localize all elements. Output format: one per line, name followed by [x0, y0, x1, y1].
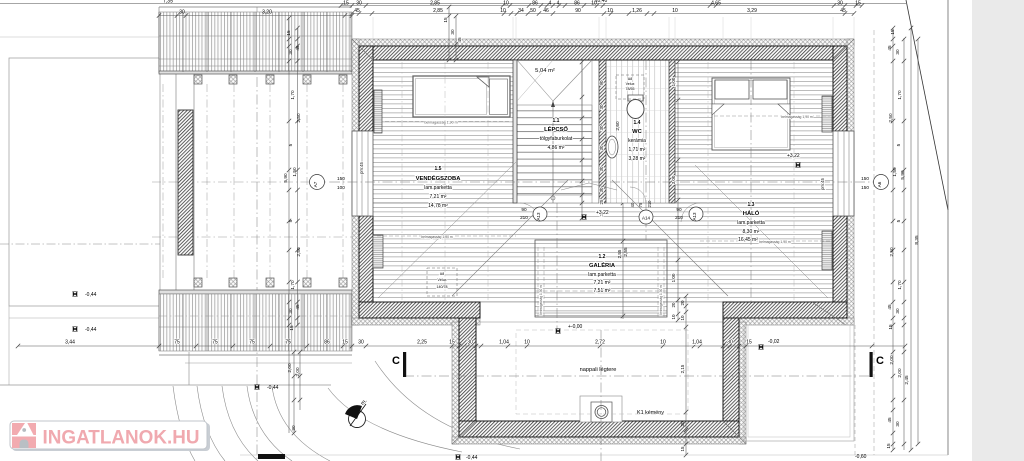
- axis marker A6: [874, 175, 889, 190]
- svg-text:2,00: 2,00: [897, 368, 902, 378]
- level marker -0,02: [756, 342, 765, 351]
- svg-text:15: 15: [449, 340, 455, 346]
- stairs top X: [517, 60, 553, 101]
- bottom main dimension line: [18, 345, 905, 347]
- svg-text:+3,22: +3,22: [596, 210, 609, 216]
- svg-text:45: 45: [887, 417, 892, 423]
- watermark logo box: [12, 423, 210, 451]
- svg-text:3,20: 3,20: [262, 9, 272, 15]
- svg-text:2,72: 2,72: [595, 340, 605, 346]
- partition vendegszoba/stairs: [513, 60, 517, 203]
- glazed wall strip left: [352, 131, 373, 216]
- left site boundary rectangle: [9, 58, 160, 306]
- svg-text:45: 45: [295, 304, 300, 310]
- axis halo vertical: [750, 60, 752, 302]
- svg-text:belmagasság 1,90 m: belmagasság 1,90 m: [781, 115, 813, 119]
- svg-text:A8: A8: [440, 272, 444, 276]
- svg-text:30: 30: [895, 49, 900, 55]
- svg-text:30: 30: [599, 125, 604, 131]
- halo left chain: [677, 62, 679, 320]
- svg-text:4: 4: [557, 1, 560, 7]
- svg-text:10,40: 10,40: [595, 0, 608, 4]
- svg-text:VENDÉGSZOBA: VENDÉGSZOBA: [416, 174, 462, 182]
- main wall hatched band: [359, 46, 847, 60]
- top deck boards: [159, 12, 352, 72]
- svg-text:belmagasság 1,90 m: belmagasság 1,90 m: [421, 235, 453, 239]
- svg-text:4,86 m²: 4,86 m²: [548, 145, 565, 151]
- svg-text:tölgyfaburkolat: tölgyfaburkolat: [540, 136, 573, 142]
- pergola beam (tall hatched rectangle): [178, 110, 193, 255]
- svg-text:4,65: 4,65: [711, 1, 721, 7]
- window right wall upper: [822, 96, 832, 132]
- svg-text:1,70: 1,70: [290, 90, 295, 100]
- svg-text:1.3: 1.3: [748, 202, 755, 208]
- deck posts top row: [194, 75, 202, 84]
- svg-text:30: 30: [599, 145, 604, 151]
- svg-text:1,50: 1,50: [292, 167, 297, 177]
- svg-text:belmagasság 1,90 m: belmagasság 1,90 m: [759, 240, 791, 244]
- svg-text:-0,44: -0,44: [85, 327, 97, 333]
- svg-text:45: 45: [887, 45, 892, 51]
- roof valley diagonals: [452, 180, 568, 296]
- terrain contour curves: [173, 386, 195, 461]
- svg-text:2,45: 2,45: [904, 375, 909, 385]
- svg-text:150: 150: [861, 176, 869, 181]
- svg-text:2,60: 2,60: [615, 121, 620, 131]
- radiator left wall upper: [374, 90, 382, 133]
- section marker C right: [870, 352, 873, 377]
- svg-text:5: 5: [288, 143, 293, 146]
- svg-text:75: 75: [285, 340, 291, 346]
- svg-text:1,26: 1,26: [632, 8, 642, 14]
- level marker +-0,00: [553, 326, 562, 335]
- svg-text:1,04: 1,04: [692, 340, 702, 346]
- svg-text:100: 100: [337, 185, 345, 190]
- svg-text:2,50: 2,50: [296, 247, 301, 257]
- svg-text:30: 30: [358, 340, 364, 346]
- upper floor boards (vendegszoba + halo + galeria): [373, 60, 833, 302]
- level marker -0,44 a: [70, 289, 79, 298]
- svg-text:7,21 m²: 7,21 m²: [594, 280, 611, 286]
- svg-text:Vélux: Vélux: [438, 278, 447, 282]
- svg-text:C: C: [392, 355, 400, 367]
- svg-text:lam.parketta: lam.parketta: [737, 220, 765, 226]
- svg-text:2,55: 2,55: [623, 247, 628, 257]
- svg-text:75: 75: [249, 340, 255, 346]
- svg-text:5: 5: [896, 219, 901, 222]
- svg-text:14,78 m²: 14,78 m²: [428, 203, 448, 209]
- svg-text:75: 75: [174, 340, 180, 346]
- svg-text:2,50: 2,50: [888, 113, 893, 123]
- stairs riser chain: [581, 62, 583, 218]
- axis chimney vertical: [600, 330, 602, 461]
- svg-text:3,29: 3,29: [747, 8, 757, 14]
- top deck joints: [158, 12, 160, 72]
- svg-text:Velux: Velux: [626, 82, 635, 86]
- wc floor: [606, 60, 669, 203]
- galeria inset room: [535, 240, 667, 317]
- svg-text:15: 15: [886, 443, 891, 449]
- svg-text:15: 15: [289, 325, 294, 331]
- svg-text:INGATLANOK.HU: INGATLANOK.HU: [43, 427, 200, 449]
- svg-text:45: 45: [457, 37, 462, 43]
- svg-text:5: 5: [896, 143, 901, 146]
- glazed wall strip right: [833, 131, 854, 216]
- svg-text:210: 210: [647, 200, 652, 208]
- svg-text:nappali légtere: nappali légtere: [580, 367, 617, 373]
- svg-text:8,30 m²: 8,30 m²: [743, 229, 760, 235]
- svg-text:1,70: 1,70: [897, 90, 902, 100]
- svg-text:45: 45: [887, 304, 892, 310]
- svg-text:2,50: 2,50: [889, 247, 894, 257]
- svg-text:30: 30: [727, 340, 733, 346]
- level marker -0,44 c: [252, 382, 261, 391]
- svg-text:90: 90: [676, 207, 682, 212]
- room boundary line y203: [373, 202, 833, 204]
- svg-text:2,25: 2,25: [417, 340, 427, 346]
- svg-text:lam.parketta: lam.parketta: [424, 185, 452, 191]
- wc sink: [606, 136, 618, 158]
- svg-text:2,50: 2,50: [296, 113, 301, 123]
- svg-text:40: 40: [630, 202, 635, 207]
- stairs floor: [516, 60, 599, 203]
- svg-text:210: 210: [675, 215, 683, 220]
- svg-text:2,15: 2,15: [680, 364, 685, 373]
- outer insulation cross-hatch band: [352, 39, 854, 46]
- headroom 1.90 lines: [385, 121, 510, 123]
- svg-text:45: 45: [840, 8, 846, 14]
- svg-text:15: 15: [443, 17, 448, 23]
- svg-text:86: 86: [324, 340, 330, 346]
- svg-text:75: 75: [212, 340, 218, 346]
- svg-text:3,00: 3,00: [671, 175, 676, 184]
- svg-text:210: 210: [520, 215, 528, 220]
- svg-text:30: 30: [288, 308, 293, 314]
- section marker C left: [403, 352, 406, 377]
- svg-text:46: 46: [543, 8, 549, 14]
- svg-text:15: 15: [680, 446, 685, 452]
- svg-text:30: 30: [599, 166, 604, 172]
- svg-text:50: 50: [530, 8, 536, 14]
- main vertical axis through courtyard: [256, 7, 258, 461]
- svg-text:kerámia: kerámia: [628, 138, 646, 144]
- svg-text:8,35: 8,35: [914, 235, 919, 245]
- bottom deck boards: [159, 290, 352, 294]
- svg-text:5,90: 5,90: [900, 170, 905, 180]
- svg-text:A14: A14: [642, 216, 651, 221]
- svg-text:1,50: 1,50: [892, 167, 897, 177]
- svg-text:30: 30: [179, 9, 185, 15]
- svg-text:78/55: 78/55: [626, 87, 635, 91]
- window left wall lower: [373, 235, 383, 268]
- courtyard axis lines: [162, 84, 164, 278]
- svg-text:10: 10: [672, 8, 678, 14]
- lower terrace step: [0, 384, 331, 386]
- bottom deck joints: [158, 294, 160, 351]
- top dimension row 2: [352, 13, 854, 15]
- svg-text:30: 30: [356, 1, 362, 7]
- svg-text:A7: A7: [313, 181, 318, 187]
- axis A7-A6 horizontal: [330, 181, 875, 183]
- svg-text:10: 10: [680, 315, 685, 321]
- svg-text:A6: A6: [877, 181, 882, 187]
- svg-text:7,35: 7,35: [163, 0, 173, 5]
- svg-text:20: 20: [671, 302, 676, 308]
- svg-text:15: 15: [746, 340, 752, 346]
- corner hip lines: [352, 39, 373, 60]
- svg-text:1.4: 1.4: [634, 120, 641, 126]
- svg-text:1,00: 1,00: [671, 273, 676, 282]
- axis stairs vertical: [556, 203, 558, 330]
- svg-text:30: 30: [680, 421, 685, 427]
- svg-text:30: 30: [467, 340, 473, 346]
- svg-text:7,21 m²: 7,21 m²: [430, 194, 447, 200]
- grey margin strip right: [972, 0, 1024, 461]
- deck posts bottom row: [194, 278, 202, 287]
- velux vendegszoba dashed: [427, 268, 457, 296]
- svg-text:34: 34: [518, 8, 524, 14]
- bed halo: [712, 78, 790, 150]
- left site axis dash-dot: [0, 243, 160, 245]
- svg-text:1.5: 1.5: [435, 166, 442, 172]
- svg-text:10: 10: [660, 340, 666, 346]
- svg-text:1,70: 1,70: [290, 280, 295, 290]
- svg-text:30: 30: [291, 425, 296, 431]
- svg-text:LÉPCSŐ: LÉPCSŐ: [544, 125, 568, 133]
- svg-text:4: 4: [549, 1, 552, 7]
- svg-text:150: 150: [861, 185, 869, 190]
- svg-text:2,00: 2,00: [295, 367, 300, 377]
- svg-text:-0,44: -0,44: [267, 385, 279, 391]
- svg-text:5,04 m²: 5,04 m²: [535, 68, 555, 74]
- svg-text:lam.parketta: lam.parketta: [588, 272, 616, 278]
- velux wc dashed: [616, 75, 644, 99]
- svg-text:30: 30: [450, 29, 455, 35]
- svg-text:30: 30: [837, 1, 843, 7]
- chimney K1: [580, 396, 622, 422]
- witness ticks under top dims: [351, 17, 353, 39]
- svg-text:25: 25: [599, 199, 604, 205]
- lower right terrace outline: [744, 325, 854, 441]
- svg-text:30: 30: [895, 308, 900, 314]
- svg-text:10: 10: [607, 8, 613, 14]
- right vertical dimension chains: [873, 30, 875, 455]
- axis wc/a14 vertical: [645, 60, 647, 240]
- svg-text:3,28 m²: 3,28 m²: [629, 156, 646, 162]
- svg-text:86: 86: [532, 1, 538, 7]
- left vertical dimension chain: [288, 18, 290, 433]
- svg-text:1.2: 1.2: [599, 254, 606, 260]
- svg-text:-0,44: -0,44: [466, 455, 478, 461]
- svg-text:HÁLÓ: HÁLÓ: [743, 209, 760, 217]
- svg-text:2,55: 2,55: [617, 249, 622, 258]
- svg-text:15: 15: [286, 30, 291, 36]
- axis marker A7: [310, 175, 325, 190]
- svg-text:5: 5: [288, 219, 293, 222]
- svg-text:2,00: 2,00: [889, 355, 894, 365]
- svg-text:150: 150: [337, 176, 345, 181]
- sheet top line: [0, 3, 906, 5]
- scale bar: [258, 454, 285, 459]
- svg-text:belmagasság 1,90 m: belmagasság 1,90 m: [424, 121, 457, 125]
- partition wc/halo: [669, 60, 675, 203]
- svg-text:86: 86: [574, 1, 580, 7]
- galeria dim chain: [622, 203, 624, 319]
- svg-text:90: 90: [599, 80, 604, 86]
- svg-text:1,04: 1,04: [499, 340, 509, 346]
- svg-text:90: 90: [521, 207, 527, 212]
- courtyard horizontal axes: [152, 181, 330, 183]
- svg-text:10: 10: [503, 1, 509, 7]
- svg-text:15: 15: [343, 1, 349, 7]
- svg-text:45: 45: [295, 45, 300, 51]
- svg-text:-0,02: -0,02: [768, 339, 780, 345]
- logo house icon: [12, 423, 36, 448]
- svg-text:15: 15: [890, 29, 895, 35]
- svg-text:10: 10: [500, 8, 506, 14]
- void right chain: [685, 296, 687, 455]
- svg-text:10: 10: [671, 314, 676, 320]
- svg-text:3,44: 3,44: [65, 340, 75, 346]
- level marker +3,22 center: [579, 212, 588, 221]
- partition stairs/wc: [599, 60, 606, 203]
- svg-text:30: 30: [288, 49, 293, 55]
- svg-text:pm:45: pm:45: [820, 178, 825, 190]
- section line C-C: [404, 375, 872, 377]
- svg-text:1,71 m²: 1,71 m²: [629, 147, 646, 153]
- svg-text:75: 75: [638, 202, 643, 207]
- door swing arcs: [520, 203, 539, 222]
- svg-text:pm:45: pm:45: [359, 162, 364, 174]
- left lower dim 2,00/2,00: [293, 352, 295, 433]
- deck dimension row: [159, 15, 352, 17]
- svg-text:WC: WC: [632, 129, 642, 135]
- void opening dashed projection: [516, 330, 688, 414]
- svg-text:GALÉRIA: GALÉRIA: [589, 261, 616, 269]
- bottom ground line: [240, 454, 948, 456]
- svg-text:30: 30: [599, 104, 604, 110]
- svg-text:-0,44: -0,44: [85, 292, 97, 298]
- void top edge lines: [480, 301, 723, 303]
- svg-text:1.1: 1.1: [553, 118, 560, 124]
- bed vendegszoba: [413, 76, 510, 117]
- svg-text:7,51 m²: 7,51 m²: [594, 288, 611, 294]
- svg-text:2,85: 2,85: [433, 8, 443, 14]
- wc toilet: [628, 95, 643, 101]
- small chain 15/30/45 at deck right end: [448, 7, 450, 60]
- window right wall lower: [822, 231, 832, 270]
- svg-text:1,00: 1,00: [671, 77, 676, 86]
- sheet diagonal fold line: [906, 0, 948, 210]
- svg-text:15: 15: [888, 324, 893, 330]
- top dimension row 1: [341, 5, 862, 7]
- courtyard edge verticals: [175, 73, 177, 294]
- svg-text:belmagasság 1,90 m: belmagasság 1,90 m: [659, 285, 663, 315]
- svg-text:2,00: 2,00: [287, 363, 292, 373]
- svg-text:A13: A13: [536, 212, 541, 221]
- svg-text:-0,60: -0,60: [855, 454, 867, 460]
- svg-text:15: 15: [342, 340, 348, 346]
- pillows halo: [715, 80, 749, 99]
- north arrow: [349, 411, 366, 428]
- svg-text:5,90: 5,90: [283, 173, 288, 183]
- svg-text:belmagasság 1,90 m: belmagasság 1,90 m: [539, 285, 543, 315]
- svg-text:30: 30: [599, 187, 604, 193]
- svg-text:16,45 m²: 16,45 m²: [738, 237, 758, 243]
- svg-text:+-0,00: +-0,00: [568, 324, 583, 330]
- svg-text:30: 30: [895, 421, 900, 427]
- svg-text:20: 20: [680, 300, 685, 306]
- galeria side headroom verticals: [537, 247, 539, 318]
- svg-text:K1 kémény: K1 kémény: [637, 410, 664, 416]
- svg-text:140/78: 140/78: [437, 285, 448, 289]
- svg-text:A13: A13: [692, 212, 697, 221]
- svg-text:45: 45: [354, 8, 360, 14]
- svg-text:+3,22: +3,22: [787, 153, 800, 159]
- svg-text:15: 15: [855, 1, 861, 7]
- svg-text:10: 10: [524, 340, 530, 346]
- svg-text:C: C: [876, 355, 884, 367]
- svg-text:2,85: 2,85: [430, 1, 440, 7]
- level marker -0,44 d: [453, 452, 462, 461]
- level marker -0,44 b: [70, 324, 79, 333]
- svg-text:90: 90: [575, 8, 581, 14]
- svg-text:A8: A8: [628, 77, 632, 81]
- svg-text:1,70: 1,70: [897, 280, 902, 290]
- rafter axis dash-dot verticals: [402, 62, 794, 300]
- level marker +3,22 halo: [793, 160, 802, 169]
- lower platform lines: [185, 362, 352, 364]
